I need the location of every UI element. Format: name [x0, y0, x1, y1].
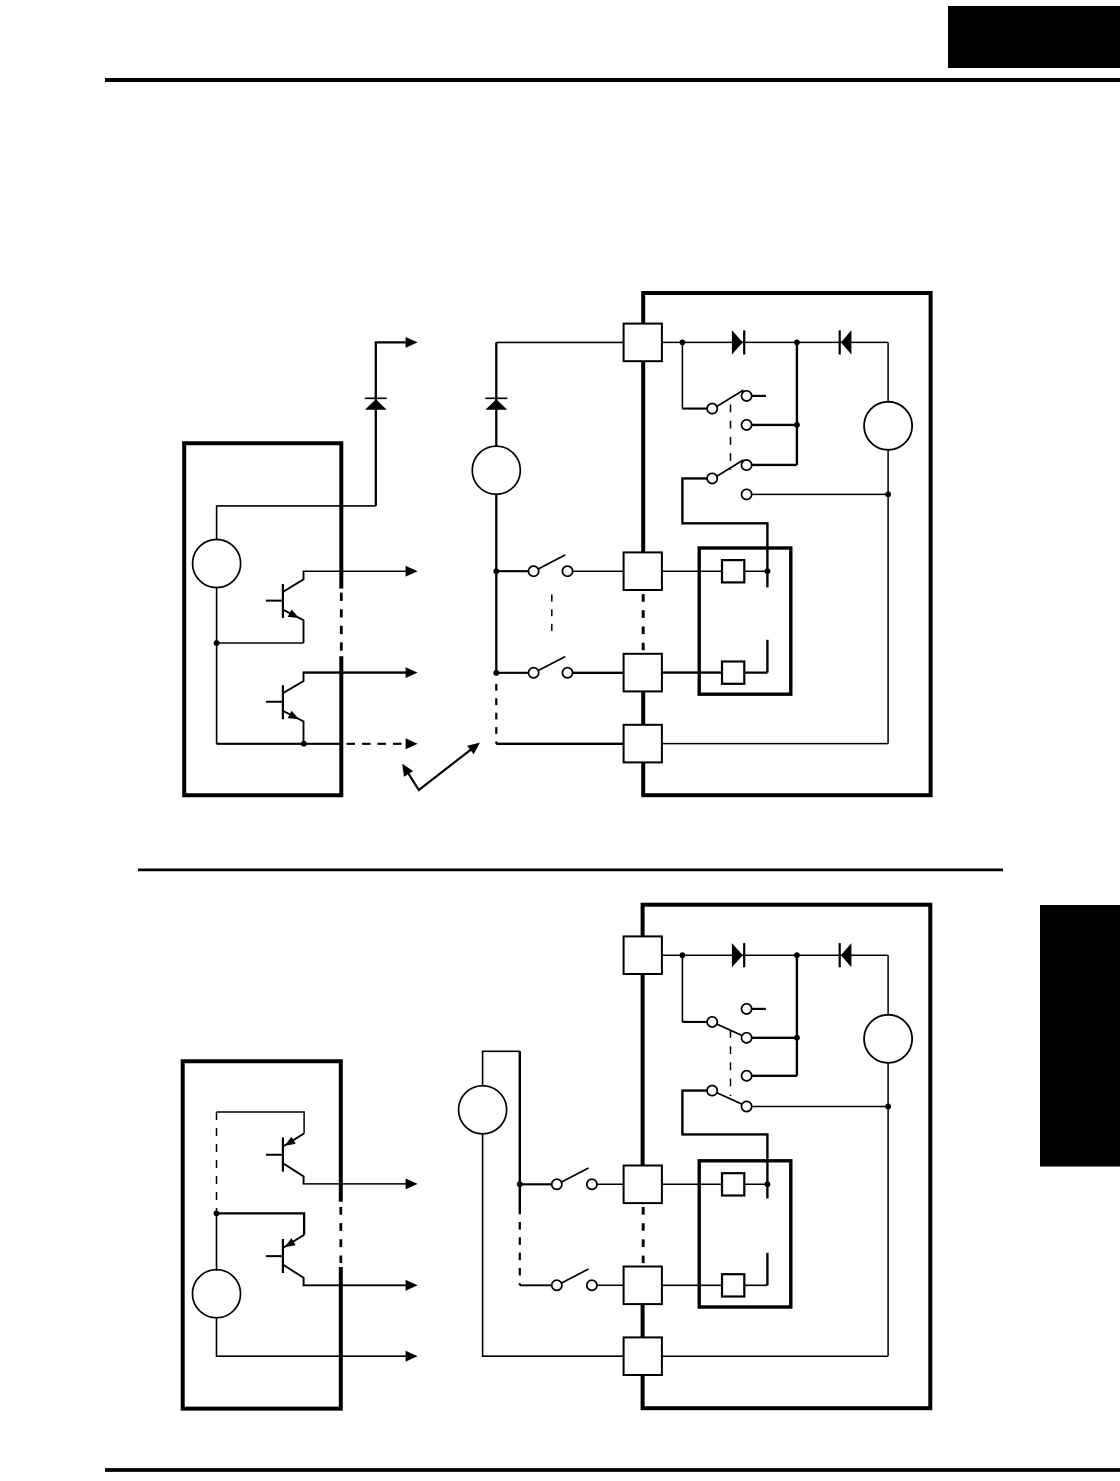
selector throw D contact (diagram 2) — [742, 1101, 889, 1111]
node: selector junction (diagram 2) — [794, 1035, 800, 1041]
relay coil 1 square (diagram 2) — [722, 1173, 744, 1195]
selector common contact 1 (diagram 1) — [707, 404, 717, 414]
transistor Q4 (diagram 2) — [266, 1235, 304, 1286]
relay coil 1 square (diagram 1) — [722, 560, 744, 582]
relay coil 2 square (diagram 2) — [722, 1274, 744, 1296]
wire: supply to terminal 1 (diagram 1) — [496, 341, 623, 343]
wire: motor branch vertical (diagram 1) — [662, 342, 888, 743]
inverter box edge gap patch (diagram 2) — [639, 1203, 647, 1266]
selector blade 2 (diagram 1) — [717, 460, 743, 476]
wire: selector common 2 to relay (diagram 2) — [682, 1091, 767, 1199]
node: rail junction (diagram 2) — [214, 1210, 220, 1216]
selector blade 2 (diagram 2) — [717, 1093, 742, 1104]
node: common-rail junction (diagram 1) — [214, 640, 220, 646]
inverter box (diagram 2) — [643, 905, 931, 1408]
wire: supply top loop (diagram 2) — [483, 1051, 520, 1086]
selector throw B contact (diagram 2) — [742, 1033, 797, 1043]
wire: controller mid row (diagram 2) — [217, 1213, 305, 1234]
node: dot A (diagram 1) — [679, 339, 685, 345]
wire: controller top row (diagram 2) — [217, 1112, 305, 1133]
page corner tab (top right) — [948, 6, 1120, 68]
terminal 3 square (diagram 1) — [624, 654, 662, 692]
wire: controller bottom row with arrow (diagram 2) — [217, 1318, 418, 1362]
wire: terminal 3 to relay coil 2 (diagram 2) — [662, 1284, 722, 1286]
input switch SW1 (diagram 2) — [520, 1168, 624, 1189]
terminal 1 square (diagram 1) — [624, 324, 662, 362]
diode D6 left-pointing (diagram 2) — [840, 943, 852, 967]
node: motor branch junction (diagram 2) — [885, 1104, 891, 1110]
wire: controller left dashed (diagram 2) — [216, 1112, 218, 1213]
relay contact lower stub (diagram 2) — [766, 1253, 768, 1285]
wire: controller top link (diagram 1) — [217, 506, 376, 540]
node: Q2 emitter junction (diagram 1) — [301, 741, 307, 747]
wire: controller common rail (diagram 1) — [216, 588, 218, 744]
output line 2 with arrow (diagram 2) — [303, 1280, 418, 1291]
terminal 1 square (diagram 2) — [624, 936, 662, 974]
diode on external supply (diagram 1) — [485, 398, 507, 410]
feeder dashed lower (diagram 1) — [495, 684, 497, 744]
node: selector junction (diagram 1) — [794, 422, 800, 428]
selector vertical link (diagram 1) — [752, 342, 797, 465]
selector mechanical link dashed (diagram 1) — [730, 405, 732, 471]
wire: terminal 2 to relay coil (diagram 2) — [662, 1183, 722, 1185]
wire: selector common 2 to relay (diagram 1) — [682, 478, 767, 587]
terminal 4 square (diagram 1) — [624, 725, 662, 763]
node: relay contact junction (diagram 2) — [764, 1181, 770, 1187]
wire: relay coil 1 to contact (diagram 1) — [744, 570, 767, 572]
wire: controller rail lower (diagram 2) — [216, 1213, 218, 1270]
footer rule — [105, 1468, 1120, 1472]
terminal 2 square (diagram 1) — [624, 552, 662, 590]
terminal 3 square (diagram 2) — [624, 1267, 662, 1305]
wire: dot A to selector common 1 (diagram 1) — [682, 342, 707, 408]
diode D3 right-pointing (diagram 1) — [732, 330, 744, 354]
motor circle (diagram 1) — [864, 402, 912, 450]
selector common contact 2 (diagram 2) — [707, 1086, 717, 1096]
diode D4 left-pointing (diagram 1) — [840, 330, 852, 354]
node: dot A (diagram 2) — [679, 952, 685, 958]
wire: dot A to selector common 1 (diagram 2) — [682, 955, 707, 1022]
external supply circle (diagram 1) — [472, 446, 520, 494]
node: relay contact junction (diagram 1) — [764, 568, 770, 574]
inverter box edge ellipsis (diagram 2) — [642, 1207, 645, 1263]
selector blade 1 (diagram 2) — [717, 1024, 742, 1035]
output line 1 with arrow (diagram 2) — [303, 1179, 418, 1190]
feeder dashed lower (diagram 2) — [519, 1222, 521, 1285]
output line 3 dashed with arrow (diagram 1) — [347, 738, 418, 749]
node: dot B (diagram 1) — [794, 339, 800, 345]
wire: relay coil 2 to contact (diagram 1) — [744, 671, 767, 673]
external supply circle (diagram 2) — [459, 1086, 507, 1134]
selector common contact 2 (diagram 1) — [707, 473, 717, 483]
node: feeder junction 1 (diagram 1) — [493, 568, 499, 574]
output line 2 with arrow (diagram 1) — [303, 667, 418, 678]
diode D5 right-pointing (diagram 2) — [732, 943, 744, 967]
relay box (diagram 2) — [699, 1161, 791, 1307]
P24 arrow wire (diagram 1) — [376, 337, 418, 506]
feeder vertical (diagram 2) — [519, 1051, 521, 1214]
inverter box edge gap patch (diagram 1) — [639, 591, 647, 654]
selector stub contact (diagram 1) — [742, 391, 766, 401]
input-device box (diagram 2) — [183, 1061, 341, 1408]
external supply wire upper (diagram 1) — [495, 342, 497, 446]
selector throw B contact (diagram 1) — [742, 420, 797, 430]
selector stub contact (diagram 2) — [742, 1004, 766, 1014]
relay coil 2 square (diagram 1) — [722, 662, 744, 684]
selector vertical link (diagram 2) — [752, 955, 797, 1076]
signal source circle (diagram 1 left box) — [193, 540, 241, 588]
wire: relay coil 1 to contact (diagram 2) — [744, 1183, 767, 1185]
node: dot B (diagram 2) — [794, 952, 800, 958]
wire: terminal 1 to motor branch (diagram 1) — [662, 341, 888, 343]
transistor Q1 (diagram 1) — [266, 571, 304, 643]
wire: terminal 1 to motor branch (diagram 2) — [662, 954, 888, 956]
selector blade 1 (diagram 1) — [717, 390, 743, 406]
annotation double arrow (diagram 1) — [402, 743, 480, 790]
wire: motor branch vertical (diagram 2) — [662, 955, 888, 1356]
terminal 4 square (diagram 2) — [624, 1337, 662, 1375]
chapter tab (right margin) — [1040, 905, 1120, 1167]
node: motor branch junction (diagram 1) — [885, 491, 891, 497]
node: feeder junction (diagram 2) — [517, 1181, 523, 1187]
relay contact lower stub (diagram 1) — [766, 640, 768, 673]
selector mechanical link dashed (diagram 2) — [730, 1030, 732, 1096]
ellipsis between switches (diagram 1) — [551, 595, 553, 639]
transistor Q2 (diagram 1) — [266, 673, 304, 744]
wire: terminal 2 to relay coil (diagram 1) — [662, 570, 722, 572]
input-device box (diagram 1) — [184, 443, 341, 795]
wire: terminal 3 to relay coil 2 (diagram 1) — [662, 671, 722, 673]
input switch SW1 (diagram 1) — [496, 555, 623, 576]
input switch SW2 (diagram 1) — [496, 657, 623, 678]
signal source circle (diagram 2 left box) — [193, 1270, 241, 1318]
inverter box edge ellipsis (diagram 1) — [642, 594, 645, 650]
selector throw D contact (diagram 1) — [742, 489, 889, 499]
inverter box (diagram 1) — [643, 293, 930, 795]
input switch SW2 (diagram 2) — [520, 1269, 624, 1290]
wire: controller bottom row (diagram 1) — [217, 743, 342, 745]
selector throw C contact (diagram 2) — [742, 1071, 752, 1081]
transistor Q3 (diagram 2) — [266, 1133, 304, 1184]
diode on P24 arrow (diagram 1) — [365, 398, 387, 410]
relay box (diagram 1) — [699, 548, 791, 694]
selector throw C contact (diagram 1) — [742, 460, 752, 470]
feeder vertical (diagram 1) — [495, 494, 497, 672]
node: feeder junction 2 (diagram 1) — [493, 670, 499, 676]
wire: feeder to terminal 4 row (diagram 1) — [496, 743, 623, 745]
wire: relay coil 2 to contact (diagram 2) — [744, 1284, 767, 1286]
wire: supply bottom loop (diagram 2) — [483, 1134, 624, 1356]
motor circle (diagram 2) — [864, 1015, 912, 1063]
wire: Q1 emitter row (diagram 1) — [217, 642, 304, 644]
header rule — [105, 78, 1120, 82]
output line 1 with arrow (diagram 1) — [303, 566, 418, 577]
selector common contact 1 (diagram 2) — [707, 1017, 717, 1027]
terminal 2 square (diagram 2) — [624, 1166, 662, 1204]
section divider rule — [138, 869, 1003, 872]
